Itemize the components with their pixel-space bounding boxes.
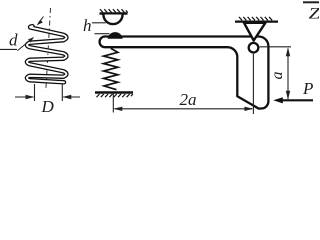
pin axis extension line (right end of 2a) xyxy=(252,54,254,114)
2a dimension line with arrows xyxy=(113,107,253,111)
pin circle xyxy=(249,43,259,53)
h upper extension line xyxy=(92,22,106,24)
lower ground hatching xyxy=(97,94,133,97)
contact bump on beam top edge xyxy=(108,32,123,39)
svg-text:d: d xyxy=(9,31,18,50)
D dimension extension line left xyxy=(34,84,36,101)
svg-text:P: P xyxy=(302,79,313,98)
upper support hatching xyxy=(100,9,128,12)
D dimension left arrow xyxy=(15,95,35,99)
d leader underline xyxy=(0,48,17,50)
svg-text:Z: Z xyxy=(309,5,320,23)
a dimension line with arrows xyxy=(286,47,290,100)
svg-text:a: a xyxy=(269,72,286,80)
pin support ceiling line xyxy=(235,20,278,22)
svg-text:2a: 2a xyxy=(180,90,197,109)
lower ground line xyxy=(95,91,133,94)
spring centerline (dashed axis of coil spring) xyxy=(46,8,51,91)
pin support hatching xyxy=(239,17,272,20)
coil spring (helical spring, wire) xyxy=(27,26,66,82)
d leader upper segment with arrow xyxy=(37,17,44,26)
h lower extension line xyxy=(95,33,110,35)
upper support line xyxy=(100,12,128,15)
D dimension extension line right xyxy=(61,84,63,101)
svg-text:h: h xyxy=(83,16,92,35)
svg-text:D: D xyxy=(41,97,55,116)
lower zigzag spring xyxy=(104,48,118,89)
top-right page fragment overline xyxy=(303,1,319,3)
pin support triangle xyxy=(244,23,265,41)
a top extension line (from pin) xyxy=(260,46,292,48)
2a left extension line xyxy=(112,93,114,113)
d leader lower segment with arrow xyxy=(18,37,35,51)
upper dome stop xyxy=(103,15,122,25)
beam (bent rod, outline) xyxy=(100,37,269,109)
D dimension right arrow xyxy=(62,95,80,99)
force P line with arrowhead xyxy=(273,97,313,103)
